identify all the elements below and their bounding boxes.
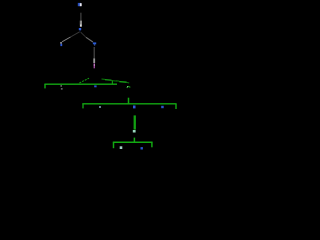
node B (blue label) xyxy=(79,28,81,31)
cyan dot at bar bottom xyxy=(133,130,136,133)
rail 3 (green horizontal) xyxy=(82,103,176,105)
label dot below rail 4 right (blue) xyxy=(141,147,143,149)
green scribble ascending (left part above rail 2) xyxy=(79,78,89,83)
green vertical bar (tall label) xyxy=(134,115,136,129)
edge B to D (gray diagonal) xyxy=(81,32,86,37)
edge B to C (gray diagonal, white arrowhead) xyxy=(60,32,79,44)
node E (magenta label bar) xyxy=(94,63,95,68)
rail 3 right tick down xyxy=(175,104,177,109)
node C (blue label) xyxy=(60,44,62,46)
label dot below rail 3 mid (blue) xyxy=(133,106,136,109)
rail 4 (green horizontal) xyxy=(113,141,153,143)
label dot below rail 2 left (gray, two lines) xyxy=(60,85,62,89)
green tick joining scribble to rail 2 xyxy=(111,80,113,84)
rail 4 left tick down xyxy=(113,142,115,148)
rail 2 (green horizontal) xyxy=(44,83,117,85)
rail 4 right tick down xyxy=(151,142,153,147)
rail 2 left tick down xyxy=(44,84,46,88)
green v-hook below rail 2 right end xyxy=(127,86,131,88)
edge root to node B (gray arrow, white tip) xyxy=(80,13,82,27)
green scribble dashes (right part above rail 2) xyxy=(102,79,118,81)
node D (blue label with descender) xyxy=(93,42,96,45)
label dot below rail 4 left (cyan-gray) xyxy=(120,146,123,149)
label dot below rail 2 mid (blue) xyxy=(94,85,96,87)
rail 3 left tick down xyxy=(82,104,84,109)
green sloping segment at rail 2 right end xyxy=(116,81,129,83)
node A (root label, blue/white) xyxy=(78,3,82,6)
rail 3 up stem xyxy=(128,98,130,104)
label dot below rail 3 right (blue) xyxy=(161,106,164,108)
edge D down (gray arrow, brighter tip) xyxy=(93,47,95,63)
label dot below rail 3 left (cyan) xyxy=(99,106,101,108)
rail 4 up stem xyxy=(133,138,135,143)
